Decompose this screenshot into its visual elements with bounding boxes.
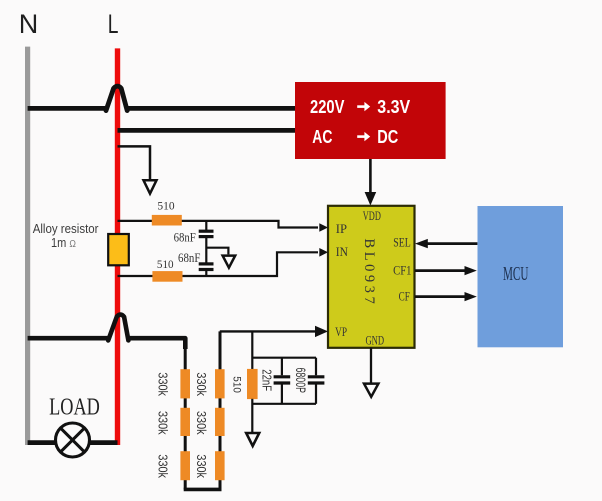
arrow glyph row 1	[357, 102, 370, 111]
ground arrow top	[144, 180, 157, 193]
resistor R 510 vertical	[247, 369, 258, 399]
wire: cap midpoint to ground	[206, 248, 228, 255]
svg-text:510: 510	[231, 376, 243, 393]
AC-DC converter module	[295, 82, 446, 159]
resistor 330k right 3	[215, 451, 225, 480]
svg-text:330k: 330k	[194, 372, 209, 396]
svg-text:330k: 330k	[194, 454, 209, 478]
svg-text:DC: DC	[377, 127, 398, 147]
alloy shunt resistor body	[108, 234, 129, 265]
svg-text:510: 510	[157, 257, 174, 271]
resistor 330k right 2	[215, 408, 225, 436]
capacitor C 6800P	[308, 358, 325, 404]
svg-text:330k: 330k	[156, 372, 171, 396]
wire: IP branch	[118, 221, 319, 228]
MCU block	[478, 206, 564, 347]
capacitor C 22nF	[274, 358, 291, 404]
svg-text:Alloy resistor: Alloy resistor	[33, 221, 99, 236]
wire: L top ground stub	[118, 146, 151, 179]
svg-text:SEL: SEL	[393, 235, 411, 250]
resistor 330k left 2	[180, 408, 190, 436]
resistor R 510 (upper)	[152, 215, 182, 226]
wire hop: divider feed crossing over L rail	[108, 315, 128, 341]
wire: neutral N vertical rail	[25, 47, 30, 445]
svg-text:VP: VP	[335, 324, 347, 339]
wire: left divider chain vertical	[184, 340, 187, 490]
wire: right segment to divider chain	[129, 338, 186, 349]
wire: GND stub below chip	[370, 348, 372, 384]
svg-text:L: L	[108, 9, 119, 39]
capacitor C 68nF upper	[199, 221, 214, 263]
svg-text:GND: GND	[365, 333, 384, 348]
wire: CF1 to MCU with arrowhead	[415, 266, 477, 275]
wire: IN branch	[118, 252, 319, 276]
svg-text:3.3V: 3.3V	[377, 97, 410, 117]
wire: bottom load wire	[28, 440, 118, 445]
wire hop: N feed crossing over L rail	[106, 86, 127, 110]
wire: live L vertical rail (red)	[115, 48, 120, 445]
svg-text:CF: CF	[399, 288, 410, 303]
wire: VP filter vertical upper	[251, 331, 253, 369]
capacitor C 68nF lower	[199, 264, 214, 276]
op IC U1 BL0937	[328, 206, 415, 348]
arrowhead into VP	[315, 326, 328, 337]
resistor R 510 (lower)	[152, 271, 182, 282]
wire: N to AC-DC module with hop over L	[28, 106, 107, 111]
wire: AC-DC output to VDD with arrowhead	[365, 159, 377, 206]
svg-text:VDD: VDD	[363, 208, 381, 223]
svg-text:330k: 330k	[156, 411, 171, 435]
lamp load symbol	[56, 423, 90, 457]
svg-text:22nF: 22nF	[260, 369, 275, 391]
wire: CF to MCU with arrowhead	[415, 292, 477, 301]
wire: N feed right segment to AC-DC module	[127, 106, 295, 111]
arrowhead into IP	[319, 223, 328, 232]
svg-text:330k: 330k	[156, 454, 171, 478]
svg-text:CF1: CF1	[393, 262, 411, 277]
wire: right divider chain vertical	[219, 331, 222, 489]
svg-text:68nF: 68nF	[174, 229, 196, 244]
resistor 330k left 1	[180, 369, 190, 398]
wire: cap branch top rail	[252, 357, 316, 359]
wire: MCU to SEL with arrowhead	[415, 239, 477, 248]
wire: N to divider with hop over L	[28, 336, 109, 341]
resistor 330k right 1	[215, 369, 225, 398]
svg-text:68nF: 68nF	[178, 250, 200, 265]
arrow glyph row 2	[357, 132, 370, 141]
resistor 330k left 3	[180, 451, 190, 480]
svg-text:AC: AC	[312, 127, 332, 147]
wire: divider bottom connector	[184, 488, 222, 492]
wire: L to AC-DC module	[118, 128, 296, 133]
ground arrow below chip	[364, 384, 378, 397]
ground arrow mid	[223, 256, 236, 268]
arrowhead into IN	[319, 248, 328, 257]
svg-text:510: 510	[157, 199, 174, 213]
wire: VP filter vertical lower	[251, 399, 253, 433]
svg-text:IP: IP	[336, 221, 347, 236]
svg-text:LOAD: LOAD	[49, 395, 100, 421]
svg-text:220V: 220V	[310, 97, 344, 117]
svg-text:MCU: MCU	[503, 264, 528, 285]
ground arrow bottom left	[246, 433, 259, 446]
wire: divider tap to VP	[220, 330, 318, 332]
svg-text:330k: 330k	[194, 411, 209, 435]
svg-text:6800P: 6800P	[293, 368, 309, 394]
svg-text:1m Ω: 1m Ω	[51, 235, 76, 250]
svg-text:N: N	[19, 9, 39, 39]
wire: cap branch bottom rail	[252, 403, 316, 405]
svg-text:IN: IN	[336, 244, 349, 259]
